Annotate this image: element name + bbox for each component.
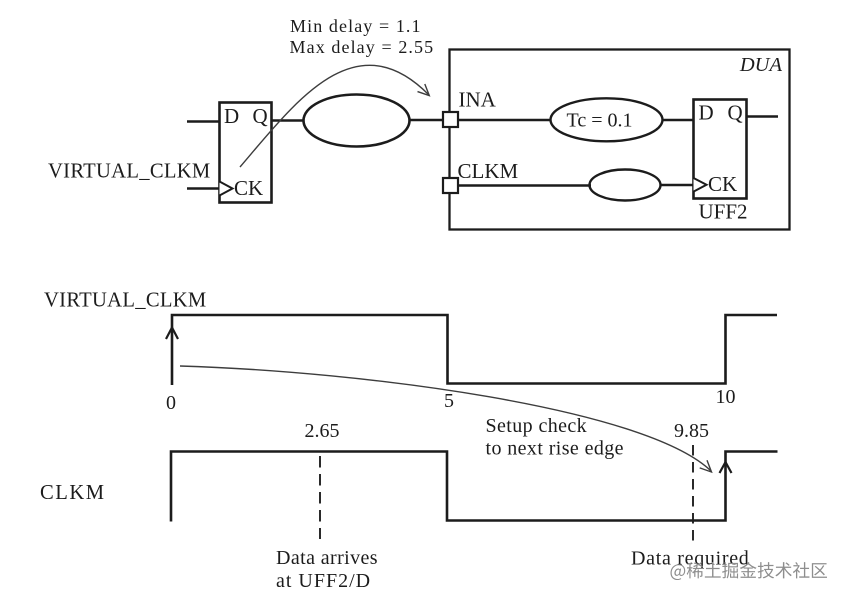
svg-text:VIRTUAL_CLKM: VIRTUAL_CLKM: [48, 160, 211, 182]
svg-text:VIRTUAL_CLKM: VIRTUAL_CLKM: [44, 289, 207, 311]
wire: clock ellipse to UFF2 CK: [661, 184, 695, 187]
svg-text:CK: CK: [234, 176, 263, 200]
svg-text:Max delay = 2.55: Max delay = 2.55: [290, 37, 435, 57]
svg-text:Tc = 0.1: Tc = 0.1: [567, 110, 633, 132]
svg-text:Setup check: Setup check: [486, 415, 588, 437]
wire: CLKM port to clock net ellipse: [458, 184, 591, 187]
svg-text:UFF2: UFF2: [699, 200, 748, 224]
setup-check curved arrow from t=0 edge to t=9.85 edge: [180, 366, 711, 471]
net delay cloud (ellipse) between UFF1/Q and INA: [304, 95, 410, 147]
curved annotation arrow from UFF1 to INA (min/max delay): [240, 65, 429, 167]
rising edge arrowhead at t=9.85 (data required edge): [720, 462, 732, 473]
wire: UFF1 Q output to net delay cloud: [272, 119, 305, 122]
svg-text:CLKM: CLKM: [40, 482, 106, 504]
svg-text:DUA: DUA: [739, 54, 783, 76]
svg-text:Data arrives: Data arrives: [276, 547, 378, 569]
rising edge arrowhead at t=0 (VIRTUAL_CLKM): [166, 328, 178, 340]
flip-flop UFF2 body: [694, 100, 747, 199]
DUA box (design under analysis): [450, 50, 790, 230]
svg-text:CLKM: CLKM: [458, 159, 519, 183]
port CLKM (square pin on DUA boundary): [443, 178, 458, 193]
svg-text:at UFF2/D: at UFF2/D: [276, 570, 371, 592]
svg-text:5: 5: [444, 390, 454, 412]
wire: D input of launch flip-flop: [187, 120, 219, 123]
wire: UFF2 Q output stub: [747, 115, 779, 118]
svg-text:CK: CK: [708, 172, 737, 196]
clock triangle (UFF2 CK pin): [694, 178, 707, 192]
svg-text:INA: INA: [459, 87, 497, 111]
wire: ellipse to UFF2 D input: [662, 119, 694, 122]
svg-text:0: 0: [166, 392, 176, 414]
waveform CLKM trace: [171, 452, 778, 522]
svg-text:D: D: [699, 101, 714, 125]
dashed marker line at t=2.65: [319, 456, 321, 539]
svg-text:2.65: 2.65: [305, 420, 340, 442]
svg-text:9.85: 9.85: [674, 420, 709, 442]
svg-text:Q: Q: [728, 101, 743, 125]
port INA (square pin on DUA boundary): [443, 112, 458, 127]
wire: CK input of launch flip-flop (VIRTUAL_CLKM): [187, 187, 219, 190]
dashed marker line at t=9.85: [692, 445, 694, 544]
svg-text:Q: Q: [253, 104, 268, 128]
waveform VIRTUAL_CLKM trace: [172, 315, 777, 385]
cell delay ellipse Tc = 0.1: [551, 98, 663, 141]
svg-text:10: 10: [716, 386, 736, 408]
clock triangle (UFF1 CK pin): [220, 182, 233, 196]
svg-text:D: D: [224, 104, 239, 128]
wire: cloud to INA port: [410, 119, 445, 122]
wire: INA to cell delay ellipse: [458, 119, 551, 122]
svg-text:to next rise edge: to next rise edge: [486, 438, 624, 460]
flip-flop UFF1 (launch flop) body: [220, 103, 272, 203]
clock net delay ellipse (unlabelled): [590, 170, 661, 201]
svg-text:Min delay = 1.1: Min delay = 1.1: [290, 16, 422, 36]
watermark "@xitu juejin jishu shequ": [670, 562, 827, 580]
